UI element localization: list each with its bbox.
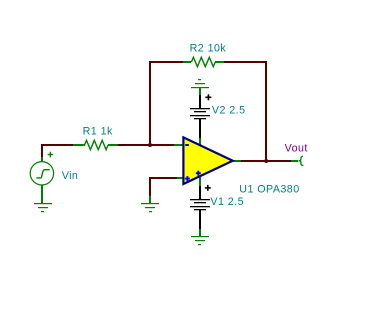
svg-text:U1 OPA380: U1 OPA380 [239, 184, 299, 196]
wire: Vin top vertical [41, 144, 43, 157]
wire: feedback top rail left segment [151, 61, 183, 63]
ground at non-inverting input [141, 196, 159, 212]
junction: inverting input node [148, 143, 152, 147]
voltage source Vin (AC source) [30, 152, 53, 203]
label V2 2.5 [212, 104, 246, 116]
label R2 10k [190, 42, 227, 54]
wire: feedback top rail right segment [224, 61, 267, 63]
junction: output node [264, 159, 268, 163]
svg-text:R2 10k: R2 10k [190, 42, 227, 54]
wire: Vin bend to R1 left [43, 144, 73, 146]
label Vout [285, 142, 308, 154]
label Vin [62, 170, 79, 182]
label R1 1k [83, 126, 113, 138]
svg-text:Vin: Vin [62, 170, 79, 182]
resistor R2 [183, 57, 224, 66]
wire: feedback left vertical [149, 61, 151, 146]
wire: feedback right vertical [265, 61, 267, 162]
svg-text:Vout: Vout [285, 142, 308, 154]
svg-text:V1 2.5: V1 2.5 [210, 196, 244, 208]
op-amp U1 OPA380 [174, 137, 241, 186]
battery V2 [190, 94, 211, 138]
svg-text:R1 1k: R1 1k [83, 126, 113, 138]
wire: R1 right to inverting node and op-amp [118, 144, 174, 146]
label V1 2.5 [210, 196, 244, 208]
label U1 OPA380 [239, 184, 299, 196]
svg-text:V2 2.5: V2 2.5 [212, 104, 246, 116]
wire: non-inverting input down to ground [149, 177, 151, 196]
flipped ground above V2 [191, 79, 209, 95]
battery V1 [190, 185, 211, 229]
wire: non-inverting input horizontal [149, 177, 177, 179]
output terminal Vout pin [291, 156, 303, 165]
resistor R1 [73, 140, 118, 149]
ground below Vin [34, 203, 52, 212]
wire: op-amp output to Vout [241, 160, 291, 162]
ground below V1 [191, 229, 209, 245]
